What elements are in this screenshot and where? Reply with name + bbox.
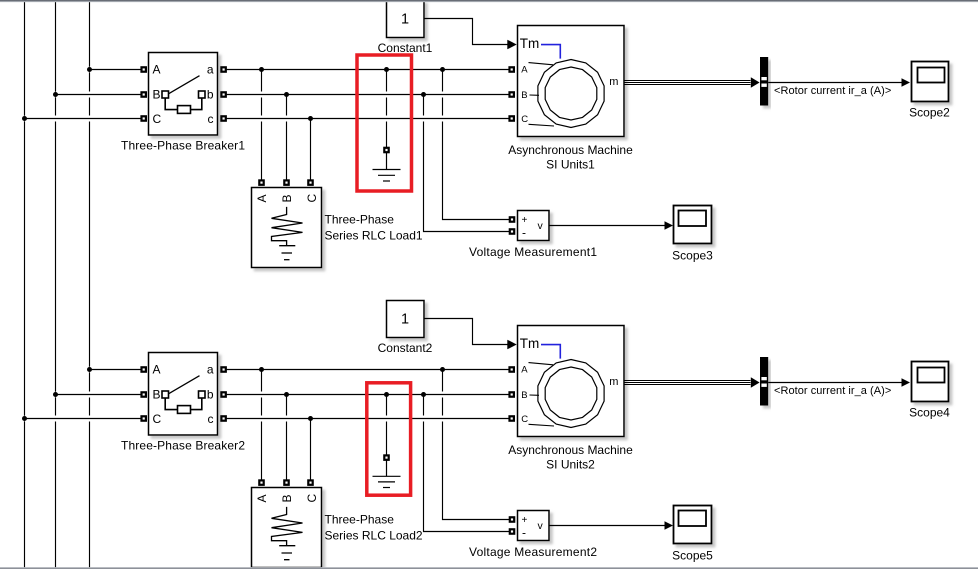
bottom scrollbar band [0, 567, 978, 569]
junction bus C / wire C [22, 116, 27, 121]
junction bus B / wire B [53, 392, 58, 397]
svg-text:m: m [609, 376, 618, 388]
wire: drop from wire b to Ground G2 [386, 395, 388, 456]
port squares: Voltage Measurement1 + and - [510, 217, 514, 233]
ground G2 [373, 460, 401, 487]
svg-text:SI Units1: SI Units1 [546, 158, 595, 172]
label Scope3 [672, 249, 713, 263]
scope block Scope5 [674, 506, 712, 544]
svg-text:Scope4: Scope4 [909, 405, 950, 419]
wire c: Breaker2 output c to Machine2 input C [225, 416, 512, 422]
label Voltage Measurement2 [469, 545, 597, 559]
junction bus A / wire A [87, 367, 92, 372]
wire: phase B bus to Breaker2 input B [56, 392, 144, 398]
ground G2 port square [384, 455, 388, 459]
junction bus B / wire B [53, 92, 58, 97]
port squares: Load2 inputs A B C [259, 480, 312, 484]
svg-text:v: v [538, 520, 544, 532]
wire: drop from wire a to Ground G1 [386, 70, 388, 149]
junction bus A / wire A [87, 67, 92, 72]
machine1 m output label [609, 76, 618, 88]
wire: drop from wire c to RLC Load1 port C [310, 119, 312, 181]
ground G1 [373, 153, 401, 181]
machine2 phase letters and leads [521, 364, 528, 425]
label Asynchronous Machine SI Units2 [508, 443, 633, 472]
wire: selector to Scope2 [768, 78, 910, 87]
load1 RLC icon [272, 207, 303, 260]
svg-text:C: C [521, 114, 528, 125]
constant block Constant2 [387, 301, 425, 338]
breaker1 switch icon [162, 76, 205, 114]
junction wire a / VM+ drop [440, 67, 445, 72]
svg-text:Tm: Tm [520, 36, 540, 51]
wire: phase A bus to Breaker1 input A [90, 67, 144, 73]
load block Three-Phase Series RLC Load1 [252, 188, 322, 268]
wire: Constant1 output to Machine1 Tm input [424, 19, 517, 50]
label Scope5 [672, 549, 713, 563]
svg-text:Asynchronous Machine: Asynchronous Machine [508, 443, 633, 457]
svg-text:b: b [207, 388, 214, 402]
wire: Machine2 m output bus (3-line) to selector [625, 381, 751, 385]
canvas top boundary band [0, 0, 978, 2]
machine2 Tm label and lead [520, 336, 561, 359]
bus selector bar (signal demux) [760, 57, 768, 106]
wire: drop from wire c to RLC Load2 port C [310, 419, 312, 481]
machine2 m output label [609, 376, 618, 388]
wire: drop from wire a to Voltage Measurement2 plus port [443, 370, 511, 520]
svg-text:+: + [522, 515, 528, 526]
load2 port letters (rotated) [255, 494, 319, 503]
svg-text:C: C [305, 194, 319, 203]
ground G1 port square [384, 148, 388, 152]
wire: drop from wire a to Voltage Measurement1 plus port [443, 70, 511, 220]
constant block Constant1 [387, 1, 425, 38]
load2 RLC icon [272, 507, 303, 560]
svg-text:c: c [208, 412, 214, 426]
red highlight box around ground 1 [357, 55, 412, 191]
svg-text:C: C [153, 412, 162, 426]
machine2 stator/rotor circles [538, 360, 604, 428]
wire c: Breaker1 output c to Machine1 input C [225, 116, 512, 122]
svg-text:<Rotor current ir_a (A)>: <Rotor current ir_a (A)> [774, 385, 891, 397]
svg-text:B: B [153, 88, 161, 102]
breaker2 port letters [153, 363, 214, 427]
wire b: Breaker1 output b to Machine1 input B [225, 92, 512, 98]
junction bus C / wire C [22, 416, 27, 421]
svg-text:B: B [521, 90, 527, 101]
svg-text:-: - [522, 526, 526, 540]
wire: drop from wire a to RLC Load2 port A [261, 370, 263, 481]
label Asynchronous Machine SI Units1 [508, 143, 633, 172]
breaker block Three-Phase Breaker1 [149, 53, 218, 136]
load1 port letters (rotated) [255, 194, 319, 203]
svg-text:A: A [153, 363, 161, 377]
wire: selector to Scope4 [768, 378, 910, 387]
svg-text:A: A [255, 494, 269, 502]
svg-text:SI Units2: SI Units2 [546, 458, 595, 472]
port squares: Breaker2 outputs a b c [221, 367, 225, 420]
label Three-Phase Series RLC Load2 [325, 513, 423, 543]
junction wire b / ground drop [384, 392, 389, 397]
red highlight box around ground 2 [367, 383, 411, 495]
svg-text:C: C [305, 494, 319, 503]
wire: Voltage Measurement2 to Scope5 [549, 521, 673, 530]
svg-text:Scope5: Scope5 [672, 549, 713, 563]
svg-text:Three-Phase Breaker1: Three-Phase Breaker1 [121, 139, 245, 153]
svg-text:Series RLC Load1: Series RLC Load1 [325, 228, 423, 242]
voltage measurement block Voltage Measurement2 [518, 511, 550, 541]
svg-text:Asynchronous Machine: Asynchronous Machine [508, 143, 633, 157]
label Three-Phase Breaker1 [121, 139, 245, 153]
bus selector bar (signal demux) [760, 357, 768, 406]
svg-text:Three-Phase: Three-Phase [325, 513, 395, 527]
port squares: Breaker1 inputs A B C [142, 67, 146, 120]
breaker block Three-Phase Breaker2 [149, 353, 218, 436]
phase C bus wire (vertical, x=25) [24, 2, 26, 567]
junction wire a / load A drop [259, 367, 264, 372]
svg-text:c: c [208, 112, 214, 126]
port squares: Load1 inputs A B C [259, 180, 312, 184]
label Three-Phase Breaker2 [121, 439, 245, 453]
svg-text:Constant1: Constant1 [378, 41, 433, 55]
svg-text:B: B [280, 494, 294, 502]
machine block Asynchronous Machine SI Units1 [518, 26, 625, 137]
wire: phase C bus to Breaker1 input C [25, 116, 144, 122]
svg-text:C: C [153, 112, 162, 126]
svg-text:B: B [280, 194, 294, 202]
svg-text:A: A [255, 194, 269, 202]
port squares: Voltage Measurement2 + and - [510, 517, 514, 533]
machine block Asynchronous Machine SI Units2 [518, 326, 625, 437]
svg-text:Voltage Measurement1: Voltage Measurement1 [469, 245, 597, 259]
phase B bus wire (vertical, x=55) [55, 2, 57, 567]
svg-text:Three-Phase: Three-Phase [325, 213, 395, 227]
label Three-Phase Series RLC Load1 [325, 213, 423, 243]
label Voltage Measurement1 [469, 245, 597, 259]
breaker2 switch icon [162, 376, 205, 414]
scope block Scope4 [912, 362, 949, 402]
wire: drop from wire b to Voltage Measurement1 minus port [424, 95, 511, 232]
svg-text:a: a [207, 63, 214, 77]
machine1 stator/rotor circles [538, 60, 604, 128]
wire: drop from wire b to RLC Load1 port B [286, 95, 288, 181]
wire: drop from wire b to Voltage Measurement2 minus port [424, 395, 511, 532]
wire: Machine1 m output bus (3-line) to selector [625, 81, 751, 85]
svg-text:-: - [522, 226, 526, 240]
svg-text:Voltage Measurement2: Voltage Measurement2 [469, 545, 597, 559]
wire: phase A bus to Breaker2 input A [90, 367, 144, 373]
junction wire a / load A drop [259, 67, 264, 72]
svg-text:B: B [521, 390, 527, 401]
label Constant2 [378, 341, 433, 355]
label Scope4 [909, 405, 950, 419]
port squares: Breaker1 outputs a b c [221, 67, 225, 120]
junction wire b / load B drop [284, 392, 289, 397]
junction wire c / load C drop [308, 116, 313, 121]
junction wire c / load C drop [308, 416, 313, 421]
junction wire b / VM- drop [421, 392, 426, 397]
wire: Constant2 output to Machine2 Tm input [424, 319, 517, 350]
signal label Rotor current [774, 385, 891, 397]
svg-text:v: v [538, 220, 544, 232]
voltage measurement block Voltage Measurement1 [518, 211, 550, 241]
load block Three-Phase Series RLC Load2 [252, 488, 322, 568]
scope block Scope2 [912, 62, 949, 102]
wire: Voltage Measurement1 to Scope3 [549, 221, 673, 230]
junction wire a / VM+ drop [440, 367, 445, 372]
svg-text:Tm: Tm [520, 336, 540, 351]
svg-text:Series RLC Load2: Series RLC Load2 [325, 528, 423, 542]
svg-text:Scope3: Scope3 [672, 249, 713, 263]
svg-text:b: b [207, 88, 214, 102]
svg-text:Three-Phase Breaker2: Three-Phase Breaker2 [121, 439, 245, 453]
port squares: Machine2 inputs A B C [510, 367, 514, 420]
svg-text:A: A [521, 364, 528, 375]
port squares: Machine1 inputs A B C [510, 67, 514, 120]
wire: phase B bus to Breaker1 input B [56, 92, 144, 98]
label Constant1 [378, 41, 433, 55]
svg-text:C: C [521, 414, 528, 425]
wire a: Breaker2 output a to Machine2 input A [225, 367, 512, 373]
breaker1 port letters [153, 63, 214, 127]
scope block Scope3 [674, 206, 712, 244]
svg-text:a: a [207, 363, 214, 377]
wire: phase C bus to Breaker2 input C [25, 416, 144, 422]
svg-text:+: + [522, 215, 528, 226]
label Scope2 [909, 105, 950, 119]
svg-text:A: A [521, 64, 528, 75]
svg-text:Scope2: Scope2 [909, 105, 950, 119]
signal label Rotor current [774, 85, 891, 97]
wire b: Breaker2 output b to Machine2 input B [225, 392, 512, 398]
port squares: Breaker2 inputs A B C [142, 367, 146, 420]
svg-text:m: m [609, 76, 618, 88]
junction wire a / ground drop [384, 67, 389, 72]
machine1 Tm label and lead [520, 36, 561, 59]
wire: drop from wire a to RLC Load1 port A [261, 70, 263, 181]
wire a: Breaker1 output a to Machine1 input A [225, 67, 512, 73]
svg-text:1: 1 [401, 11, 409, 27]
svg-text:1: 1 [401, 311, 409, 327]
machine1 phase letters and leads [521, 64, 528, 125]
phase A bus wire (vertical, x=90) [89, 2, 91, 567]
svg-text:Constant2: Constant2 [378, 341, 433, 355]
svg-text:A: A [153, 63, 161, 77]
wire: drop from wire b to RLC Load2 port B [286, 395, 288, 481]
junction wire b / VM- drop [421, 92, 426, 97]
junction wire b / load B drop [284, 92, 289, 97]
svg-text:B: B [153, 388, 161, 402]
svg-text:<Rotor current ir_a (A)>: <Rotor current ir_a (A)> [774, 85, 891, 97]
